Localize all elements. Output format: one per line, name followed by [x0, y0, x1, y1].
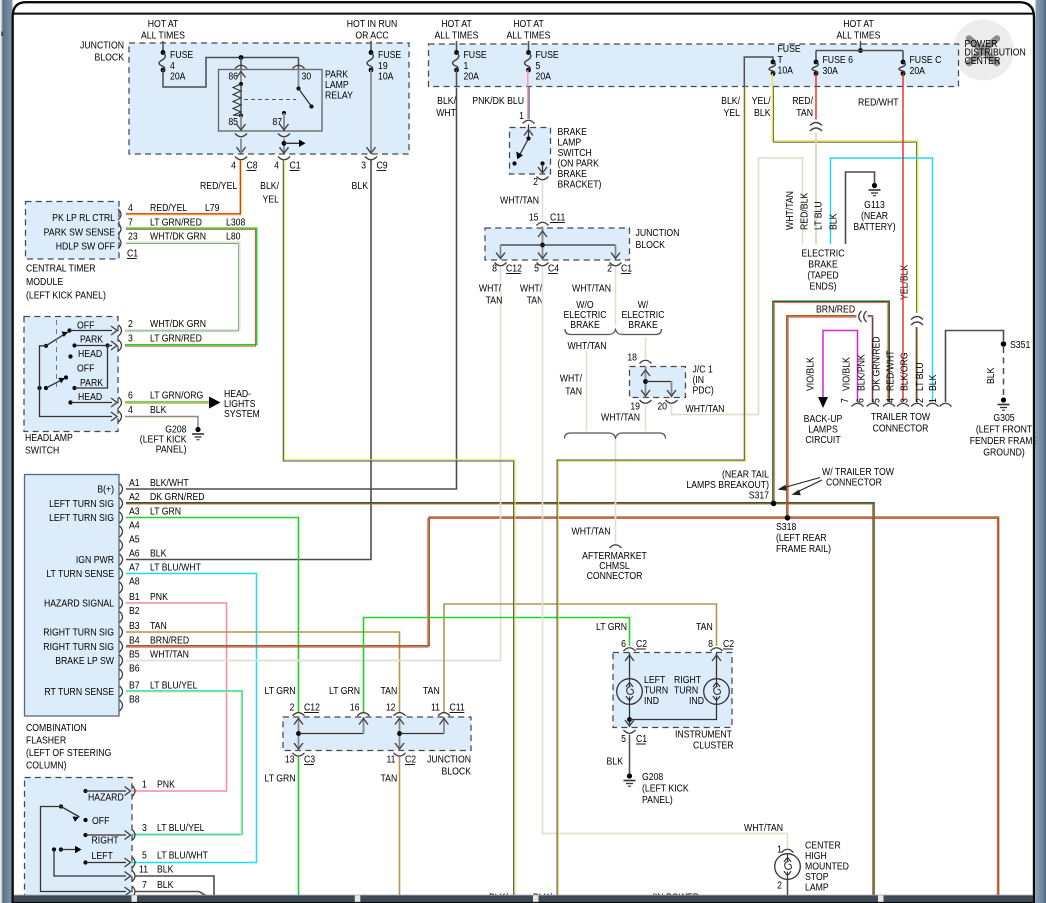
svg-text:16: 16 [350, 702, 360, 714]
svg-text:CENTER: CENTER [965, 55, 1001, 67]
dashed BLK to ground [1003, 347, 1005, 398]
svg-text:B8: B8 [129, 694, 140, 706]
svg-text:BLK/: BLK/ [260, 180, 279, 192]
headlamp blade 2 [46, 378, 66, 388]
headlamp switch pivots [44, 344, 48, 348]
wire WHT/TAN pin 2 C1 down to brake split [615, 267, 617, 325]
right app border strip [1036, 0, 1046, 903]
svg-text:VIO/BLK: VIO/BLK [841, 357, 853, 391]
svg-text:LT GRN/RED: LT GRN/RED [150, 217, 202, 229]
svg-text:4: 4 [128, 202, 133, 214]
svg-text:3: 3 [128, 333, 133, 345]
relay coil [240, 70, 242, 84]
svg-text:FRAME RAIL): FRAME RAIL) [776, 543, 831, 555]
svg-text:C11: C11 [550, 212, 565, 224]
svg-text:4: 4 [128, 404, 133, 416]
svg-text:2: 2 [128, 318, 133, 330]
svg-text:2: 2 [533, 176, 538, 188]
svg-text:RELAY: RELAY [325, 90, 353, 102]
svg-text:RED/BLK: RED/BLK [799, 192, 811, 230]
svg-text:BLK: BLK [927, 374, 939, 391]
svg-text:5: 5 [142, 850, 147, 862]
middle junction cups bottom [495, 263, 507, 266]
svg-text:11: 11 [386, 754, 395, 766]
svg-text:DK GRN/RED: DK GRN/RED [150, 491, 205, 503]
svg-text:85: 85 [228, 116, 238, 128]
svg-text:1: 1 [777, 844, 782, 856]
inline connector on YEL/BLK [911, 317, 923, 326]
wire BLK trailer pin 1 to S351 G305 [946, 331, 1004, 403]
fuse 19 [369, 50, 374, 55]
wire VIO/BLK trailer pin 7 to backup lamps [823, 331, 858, 403]
svg-text:TAN: TAN [150, 620, 167, 632]
headlamp linkage dashed [56, 320, 58, 387]
brake switch blade [526, 136, 530, 140]
connector cups below junction block [235, 157, 247, 160]
park lamp relay box [219, 70, 323, 132]
svg-text:A7: A7 [129, 562, 140, 574]
svg-text:RED/: RED/ [792, 95, 813, 107]
svg-text:YEL/BLK: YEL/BLK [899, 264, 911, 300]
svg-text:LT GRN: LT GRN [265, 773, 296, 785]
ground G113 [872, 183, 877, 188]
svg-text:A4: A4 [129, 520, 140, 532]
relay switch arm [298, 70, 300, 89]
svg-text:A3: A3 [129, 506, 140, 518]
svg-text:WHT/TAN: WHT/TAN [572, 526, 611, 538]
svg-text:BLK: BLK [157, 864, 174, 876]
svg-text:1: 1 [519, 110, 524, 122]
svg-text:B6: B6 [129, 663, 140, 675]
svg-text:B(+): B(+) [97, 484, 114, 496]
svg-text:L308: L308 [226, 217, 245, 229]
junction cups bottom [293, 753, 305, 756]
svg-text:WHT/TAN: WHT/TAN [150, 649, 189, 661]
hazard blade 2 [59, 847, 63, 851]
wire BLK cluster to ground G208 [629, 735, 631, 775]
svg-text:BLK: BLK [157, 879, 174, 891]
wire BLK/YEL PDC to lower split [557, 87, 744, 898]
fuse 1 [454, 50, 459, 55]
svg-text:LEFT TURN SIG: LEFT TURN SIG [49, 512, 114, 524]
svg-text:30A: 30A [823, 65, 839, 77]
wire WHT/TAN to J/C 1 pin 18 [645, 338, 647, 359]
svg-text:C1: C1 [290, 160, 301, 172]
svg-text:B5: B5 [129, 649, 140, 661]
svg-text:WHT/TAN: WHT/TAN [601, 412, 640, 424]
wire LT BLU/YEL B7 to hazard pin 3 [125, 691, 242, 835]
svg-text:ALL TIMES: ALL TIMES [507, 30, 551, 42]
svg-text:HAZARD: HAZARD [88, 792, 124, 804]
fuse C [901, 60, 906, 65]
svg-text:PANEL): PANEL) [642, 794, 673, 806]
svg-text:WHT: WHT [436, 107, 456, 119]
svg-text:RED/YEL: RED/YEL [200, 180, 238, 192]
node S317 [771, 501, 777, 507]
wire WHT/TAN to aftermarket CHMSL connector [615, 440, 617, 543]
svg-text:WHT/TAN: WHT/TAN [500, 195, 539, 207]
svg-text:2: 2 [777, 880, 782, 892]
center high mounted stop lamp bulb [775, 854, 801, 880]
hazard switch box [25, 778, 133, 897]
svg-text:TAN: TAN [696, 621, 713, 633]
svg-text:15: 15 [529, 212, 539, 224]
svg-text:RIGHT TURN SIG: RIGHT TURN SIG [43, 627, 114, 639]
wire RED/BLK taped end [815, 133, 817, 244]
svg-text:OFF: OFF [77, 363, 94, 375]
fuse T [771, 60, 776, 65]
svg-text:TAN: TAN [381, 773, 398, 785]
pin 4 exit [111, 412, 117, 421]
svg-text:SWITCH: SWITCH [25, 445, 59, 457]
svg-text:8: 8 [708, 638, 713, 650]
svg-text:HOT AT: HOT AT [843, 18, 874, 30]
svg-text:C2: C2 [636, 638, 647, 650]
flasher pin B8 [120, 700, 123, 711]
wire DK GRN/RED A2 to S317 and right rear [126, 503, 874, 896]
svg-text:CONNECTOR: CONNECTOR [587, 570, 643, 582]
svg-text:WHT/: WHT/ [560, 373, 583, 385]
svg-text:IND: IND [689, 695, 704, 707]
svg-text:23: 23 [128, 231, 138, 243]
svg-text:6: 6 [621, 638, 626, 650]
svg-text:BLK/: BLK/ [721, 95, 740, 107]
fuse 4 [161, 50, 166, 55]
brake switch pin 2 contact [540, 161, 544, 165]
svg-text:TAN: TAN [381, 685, 398, 697]
svg-text:BLK: BLK [754, 107, 771, 119]
svg-text:TRAILER TOW: TRAILER TOW [871, 411, 931, 423]
svg-text:BRAKE LP SW: BRAKE LP SW [55, 655, 115, 667]
svg-text:WHT/TAN: WHT/TAN [784, 191, 796, 230]
hazard contact [83, 789, 87, 793]
window title separator line [13, 13, 1034, 15]
central timer module box [26, 202, 120, 260]
left app border strip [0, 0, 2, 903]
svg-text:4: 4 [885, 398, 897, 403]
svg-text:30: 30 [302, 71, 312, 83]
svg-text:C1: C1 [636, 733, 647, 745]
svg-text:20A: 20A [910, 65, 926, 77]
wire LT BLU electric brake to trailer pin 2 [831, 158, 933, 402]
svg-text:PNK/DK BLU: PNK/DK BLU [472, 95, 524, 107]
svg-text:PDC): PDC) [693, 385, 714, 397]
hazard wire to pin 5 [86, 862, 127, 864]
cluster internal ground bus [629, 705, 631, 728]
svg-text:LAMP: LAMP [805, 882, 829, 894]
svg-text:C9: C9 [377, 160, 388, 172]
svg-text:3: 3 [142, 822, 147, 834]
junction internal right bus [399, 717, 401, 751]
svg-text:IND: IND [644, 695, 659, 707]
relay linkage dashed [244, 99, 296, 101]
svg-text:ALL TIMES: ALL TIMES [435, 30, 479, 42]
wire YEL/BLK fuse T to trailer pin 3 [772, 74, 917, 314]
svg-text:LT BLU: LT BLU [914, 362, 926, 391]
svg-text:G305: G305 [993, 412, 1014, 424]
brace split lower [565, 433, 666, 439]
svg-text:PNK: PNK [150, 591, 168, 603]
wire TAN pin C11 up and right to cluster pin 8 [444, 604, 717, 712]
svg-text:RED/WHT: RED/WHT [885, 350, 897, 391]
wire BLK from pin 4 to ground G208 [125, 417, 198, 428]
svg-text:(LEFT KICK: (LEFT KICK [642, 783, 689, 795]
flasher pin A4 [120, 526, 123, 537]
svg-text:LT BLU: LT BLU [813, 201, 825, 230]
svg-text:BLOCK: BLOCK [442, 766, 472, 778]
svg-text:WHT/DK GRN: WHT/DK GRN [150, 231, 206, 243]
svg-text:S317: S317 [749, 490, 769, 502]
brake lamp switch box [510, 128, 551, 175]
svg-text:CENTRAL TIMER: CENTRAL TIMER [26, 263, 96, 275]
svg-text:L80: L80 [226, 231, 241, 243]
inline connector on RED/TAN [810, 123, 822, 132]
svg-text:C2: C2 [405, 754, 416, 766]
wire WHT/TAN w/o brake leg [586, 351, 588, 431]
svg-text:C8: C8 [247, 160, 258, 172]
ground G208 cluster [627, 773, 632, 778]
svg-text:20A: 20A [464, 71, 480, 83]
svg-text:LT BLU/YEL: LT BLU/YEL [157, 822, 205, 834]
svg-text:FLASHER: FLASHER [26, 735, 66, 747]
wire RED/YEL from C8 to CTM pin 4 [126, 160, 240, 214]
flasher pin B2 [120, 612, 123, 623]
svg-text:BLK: BLK [607, 756, 624, 768]
junction block box (top left) [129, 43, 409, 154]
svg-text:WHT/DK GRN: WHT/DK GRN [150, 318, 206, 330]
wire TAN B3 down to junction pin 12 [126, 632, 400, 712]
svg-text:VIO/BLK: VIO/BLK [805, 357, 817, 391]
power distribution center box [429, 44, 959, 87]
wire fuse 4 to relay rail [163, 58, 299, 88]
svg-text:RIGHT TURN SIG: RIGHT TURN SIG [43, 641, 114, 653]
svg-text:LT TURN SENSE: LT TURN SENSE [46, 568, 114, 580]
junction block box (middle) [485, 228, 630, 260]
svg-text:ALL TIMES: ALL TIMES [837, 30, 881, 42]
svg-text:BLOCK: BLOCK [95, 52, 125, 64]
svg-text:BRACKET): BRACKET) [558, 179, 602, 191]
flasher pin A5 [120, 540, 123, 551]
svg-text:LEFT: LEFT [92, 850, 113, 862]
svg-text:C3: C3 [304, 754, 315, 766]
wire fuse 19 to C9 exit [370, 70, 372, 153]
wire off contact to pin 2 [70, 330, 113, 332]
svg-text:PARK: PARK [80, 377, 104, 389]
headlamp switch box [24, 317, 118, 432]
wire WHT/TAN pin 19 to brace [645, 405, 647, 432]
flasher pin B7 [120, 686, 123, 697]
brake switch pin 1 entry [528, 125, 530, 139]
svg-text:1: 1 [927, 398, 939, 403]
svg-text:COLUMN): COLUMN) [26, 760, 67, 772]
J/C 1 box [630, 367, 686, 398]
svg-text:C2: C2 [723, 638, 734, 650]
svg-text:PANEL): PANEL) [156, 444, 187, 456]
svg-text:LEFT TURN SIG: LEFT TURN SIG [49, 498, 114, 510]
svg-text:IGN PWR: IGN PWR [76, 554, 114, 566]
middle junction internal bus [542, 227, 544, 261]
node S318 [785, 515, 791, 521]
svg-text:20: 20 [657, 401, 667, 413]
wire 85 to C8 exit [240, 139, 242, 149]
wire feed into fuse 19 [370, 41, 372, 53]
wire feed into fuse 4 [162, 41, 164, 53]
wire 87 to C1 exit with branch arrow [283, 139, 285, 154]
svg-text:4: 4 [274, 160, 279, 172]
svg-text:TAN: TAN [527, 295, 544, 307]
wire PNK B1 to hazard pin 1 [125, 603, 227, 791]
svg-text:B3: B3 [129, 620, 140, 632]
svg-text:8: 8 [492, 263, 497, 275]
svg-text:BLK: BLK [828, 213, 840, 230]
flasher pin A6 [120, 554, 123, 565]
svg-text:PNK: PNK [157, 779, 175, 791]
wire BLK/WHT A1 to fuse 1 [126, 88, 457, 490]
feed rail fuse 6 and C [860, 41, 862, 51]
svg-text:PARK: PARK [80, 334, 104, 346]
svg-text:5: 5 [534, 263, 539, 275]
svg-text:20A: 20A [536, 71, 552, 83]
svg-text:BLK: BLK [985, 367, 997, 384]
svg-text:BLK: BLK [150, 548, 167, 560]
svg-text:BATTERY): BATTERY) [853, 221, 895, 233]
headlamp blade 1 [46, 331, 69, 346]
svg-text:7: 7 [128, 217, 133, 229]
svg-text:HOT AT: HOT AT [148, 18, 179, 30]
svg-text:S351: S351 [1010, 339, 1030, 351]
svg-text:ALL TIMES: ALL TIMES [141, 30, 185, 42]
svg-text:11: 11 [431, 702, 440, 714]
wire park row to pin 3 [108, 345, 113, 347]
wire WHT/DK GRN from CTM pin 23 to headlamp pin 2 [125, 242, 240, 329]
svg-text:WHT/TAN: WHT/TAN [572, 283, 611, 295]
svg-text:YEL/: YEL/ [752, 95, 771, 107]
brace split upper [565, 329, 662, 335]
wire BLK hazard pin 7 down [135, 892, 213, 903]
svg-text:JUNCTION: JUNCTION [427, 754, 471, 766]
svg-text:OFF: OFF [92, 815, 109, 827]
svg-text:HEADLAMP: HEADLAMP [25, 432, 73, 444]
svg-text:A5: A5 [129, 534, 140, 546]
wire CHMSL to bottom [787, 879, 789, 896]
svg-text:LT GRN: LT GRN [265, 685, 296, 697]
svg-text:LT GRN: LT GRN [596, 621, 627, 633]
svg-text:11: 11 [139, 864, 148, 876]
svg-text:(LEFT FRONT: (LEFT FRONT [976, 424, 1032, 436]
fuse 6 [814, 60, 819, 65]
svg-text:7: 7 [839, 398, 851, 403]
svg-text:12: 12 [386, 702, 396, 714]
svg-text:A2: A2 [129, 491, 140, 503]
fuse 5 [526, 50, 531, 55]
svg-text:BLOCK: BLOCK [636, 239, 666, 251]
svg-text:WHT/: WHT/ [520, 283, 543, 295]
CTM pin cups [118, 209, 121, 220]
wire LT GRN/ORG to headlights system [125, 401, 209, 403]
svg-text:LT BLU/WHT: LT BLU/WHT [150, 562, 201, 574]
svg-text:5: 5 [621, 733, 626, 745]
trailer tow connector cups [852, 403, 864, 406]
J/C 1 internal bus [645, 367, 647, 398]
hazard internal common 1 [41, 807, 127, 892]
svg-text:CONNECTOR: CONNECTOR [873, 423, 929, 435]
svg-text:WHT/TAN: WHT/TAN [744, 822, 783, 834]
wire WHT/TAN B5 up to junction pin 8 [126, 266, 501, 661]
node on relay rail [239, 55, 244, 60]
svg-text:SYSTEM: SYSTEM [224, 408, 260, 420]
svg-text:WHT/: WHT/ [479, 283, 502, 295]
left turn indicator bulb [629, 653, 631, 680]
flasher pin A7 [120, 568, 123, 579]
svg-text:MODULE: MODULE [26, 276, 63, 288]
svg-text:BLK/ORG: BLK/ORG [899, 352, 911, 391]
svg-text:A8: A8 [129, 576, 140, 588]
svg-text:BLK: BLK [150, 404, 167, 416]
svg-text:HEAD: HEAD [78, 391, 102, 403]
svg-text:C11: C11 [450, 702, 465, 714]
combination flasher box [25, 475, 120, 717]
right turn indicator bulb [716, 653, 718, 680]
right app border strip overdraw [1036, 0, 1046, 903]
svg-text:18: 18 [627, 352, 637, 364]
relay pin 85 exit arrow [240, 116, 242, 131]
relay pin 30 entry [298, 58, 300, 70]
svg-text:6: 6 [128, 390, 133, 402]
svg-text:TAN: TAN [486, 295, 503, 307]
close button circle with X [953, 20, 1014, 81]
svg-text:BLK/WHT: BLK/WHT [150, 477, 189, 489]
svg-text:CIRCUIT: CIRCUIT [805, 434, 840, 446]
wire WHT/TAN pin 20 up and over to electric brake [672, 158, 803, 415]
relay pin 86 entry [240, 58, 242, 70]
svg-text:DK GRN/RED: DK GRN/RED [871, 336, 883, 391]
svg-text:B4: B4 [129, 635, 140, 647]
svg-text:HDLP SW OFF: HDLP SW OFF [56, 241, 115, 253]
hazard internal common 2 [52, 847, 56, 851]
wire RED/WHT fuse C to trailer pin 4 [902, 74, 904, 403]
svg-text:BLK: BLK [352, 180, 369, 192]
junction internal left bus [298, 717, 300, 751]
wire LT GRN/RED from CTM pin 7 to headlamp pin 3 [125, 228, 257, 345]
svg-text:CONNECTOR: CONNECTOR [826, 477, 882, 489]
svg-text:HOT IN RUN: HOT IN RUN [347, 18, 398, 30]
svg-text:LT BLU/WHT: LT BLU/WHT [157, 850, 208, 862]
headlamp switch contacts group 1 [67, 328, 71, 332]
junction block box (bottom) [283, 717, 471, 751]
svg-text:LT GRN: LT GRN [150, 506, 181, 518]
svg-text:2: 2 [290, 702, 295, 714]
svg-text:PK LP RL CTRL: PK LP RL CTRL [52, 212, 115, 224]
svg-text:BRAKE: BRAKE [628, 319, 657, 331]
left app border strip overdraw [0, 0, 2, 903]
headlamp internal common wires [40, 346, 113, 417]
hazard blade 1 [59, 804, 63, 808]
svg-text:HOT AT: HOT AT [513, 18, 544, 30]
svg-text:C12: C12 [304, 702, 320, 714]
feed link BLK/YEL into fuse T [744, 57, 773, 87]
svg-text:C1: C1 [621, 263, 632, 275]
wire RED/TAN fuse 6 down to connector [815, 74, 817, 120]
flasher pin A3 [120, 512, 123, 523]
svg-text:RED/WHT: RED/WHT [858, 97, 899, 109]
wire BLK hazard pin 11 down [135, 876, 214, 897]
svg-text:LT BLU/YEL: LT BLU/YEL [150, 680, 198, 692]
wire WHT/TAN pin 5 C4 down to CHMSL [543, 267, 788, 848]
svg-text:2: 2 [914, 398, 926, 403]
svg-text:C4: C4 [548, 263, 560, 275]
svg-text:BRN/RED: BRN/RED [150, 635, 189, 647]
svg-text:B2: B2 [129, 605, 140, 617]
